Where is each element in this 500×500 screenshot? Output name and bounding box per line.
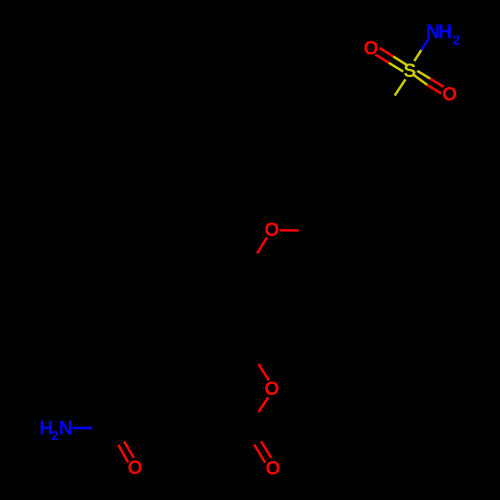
svg-text:O: O — [128, 458, 143, 479]
svg-text:O: O — [265, 220, 280, 241]
bond S=O2 lower line yellow half — [412, 74, 427, 85]
svg-text:O: O — [266, 459, 281, 480]
bond S-N yellow half — [414, 50, 421, 61]
svg-text:2: 2 — [51, 428, 58, 443]
svg-text:O: O — [265, 379, 280, 400]
bond S=O2 lower line red half — [427, 85, 441, 94]
bond ring C to lactone O red half — [259, 364, 269, 380]
svg-text:S: S — [404, 61, 417, 82]
bond amide C=O left line red half — [118, 445, 128, 463]
bond S=O1 lower line red half — [375, 54, 389, 62]
bond S=O1 upper line red half — [380, 48, 394, 56]
bond S-C yellow half — [395, 79, 406, 95]
bond S-N blue half — [421, 39, 429, 51]
bond lactone C=O left line red half — [254, 444, 265, 462]
bond S=O1 upper line yellow half — [393, 56, 407, 65]
svg-text:H: H — [438, 22, 452, 43]
bond lactone O to carbonyl C red half — [259, 397, 269, 412]
bond S=O1 lower line yellow half — [389, 63, 403, 72]
bond S=O2 upper line yellow half — [417, 71, 430, 79]
bond amide N-C blue half horizontal — [73, 427, 93, 430]
svg-text:O: O — [442, 85, 457, 106]
bond amide C=O right line red half — [124, 441, 134, 458]
svg-text:2: 2 — [453, 32, 460, 47]
bond ether O to ring red half diagonal — [257, 238, 267, 254]
bond lactone C=O right line red half — [261, 441, 271, 458]
bond S=O2 upper line red half — [430, 79, 443, 87]
svg-text:N: N — [59, 419, 73, 440]
svg-text:O: O — [364, 38, 379, 59]
bond ether O to CH2 red half horizontal — [280, 229, 299, 232]
